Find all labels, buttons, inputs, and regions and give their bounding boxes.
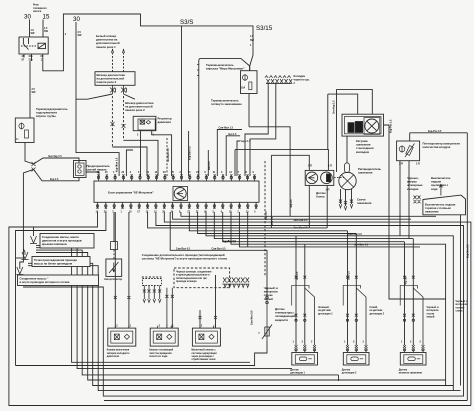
big ground loop rectangle right part [16, 341, 268, 366]
svg-text:левый: левый [427, 316, 435, 319]
bus a2 [173, 212, 411, 219]
bus b4 Чер-Роз 0.5 [214, 212, 413, 239]
knock sensor B3 extras [403, 314, 406, 317]
svg-text:провода штекера: провода штекера [176, 280, 197, 283]
label diagnostic socket white [96, 34, 120, 49]
air temp sensor box [397, 141, 420, 161]
svg-text:каскадом: каскадом [356, 150, 369, 154]
wire gauge ticks x76 and x30 [32, 31, 83, 94]
label air potentiometer [423, 142, 461, 150]
glow plug comb connector [265, 76, 292, 84]
connector junction K right [121, 85, 127, 94]
wire diag right down [124, 94, 135, 99]
label ground 2 box [32, 257, 90, 267]
wire hall left pin down [308, 185, 310, 228]
coolant connector circles [266, 296, 269, 299]
shield pair wires [296, 236, 305, 345]
label distributor [358, 167, 381, 175]
svg-text:Кор-Роз 0.5: Кор-Роз 0.5 [428, 130, 442, 133]
svg-text:панели реле 2: панели реле 2 [97, 80, 117, 84]
svg-text:30: 30 [73, 16, 80, 23]
svg-text:Сив-Жел 0.5: Сив-Жел 0.5 [251, 310, 254, 325]
ECU bottom pins [96, 202, 258, 213]
ECU K symbol circle [173, 187, 188, 201]
wire above ECU dashed Зел-Бел [166, 137, 168, 176]
wire diag plug drops dashed [113, 49, 124, 72]
pressure regulator valve symbol [140, 120, 151, 124]
shield pair wires [348, 231, 357, 345]
hall sensor box B5 [305, 170, 334, 185]
wire right edge Kor-Roz down [466, 133, 468, 401]
comb connector right of dashed block [222, 283, 249, 285]
distributor circle [339, 172, 356, 189]
svg-text:Зел-Кор 1.5: Зел-Кор 1.5 [333, 100, 336, 114]
wire 30 to relay [29, 20, 31, 38]
valve fuse element [249, 82, 252, 90]
svg-text:впрыска "Мерс-Мультимат": впрыска "Мерс-Мультимат" [206, 66, 245, 70]
wire diag left to 30 bus [76, 94, 113, 99]
wire to ECU pin from diag left [112, 147, 147, 176]
damper connector rect [111, 242, 118, 250]
svg-text:холостого хода: холостого хода [149, 355, 168, 358]
connector junction K left [110, 85, 116, 94]
label brake switch [425, 203, 456, 214]
wire coil right to Kor-Roz vertical [384, 125, 390, 160]
label in diagnostic box 2 [97, 73, 126, 84]
svg-text:Кор-Бел 0.5: Кор-Бел 0.5 [188, 146, 191, 160]
bus b3 Сив-Зел 0.5 [206, 212, 453, 391]
ground wire from ECU pin 28 joining big loop [16, 212, 106, 366]
svg-text:отработавших газов: отработавших газов [191, 358, 216, 361]
label damper [104, 277, 122, 281]
svg-text:S3/S: S3/S [180, 19, 193, 26]
wire sensor pins down [400, 161, 409, 239]
knock sensor 3 group [399, 239, 439, 375]
label glow fuse [87, 164, 111, 172]
hall circle with arrow [306, 172, 318, 184]
damper box [106, 259, 122, 276]
valve box 2 [149, 325, 178, 358]
svg-text:Амортизатор: Амортизатор [104, 277, 122, 281]
wire diag pins dashed lower [112, 96, 123, 147]
regulator pins [141, 131, 152, 133]
svg-text:системы "КЕ-Мотроник") в жгуте: системы "КЕ-Мотроник") в жгуте проводов … [142, 257, 228, 261]
plug arrows [339, 204, 353, 210]
coil winding bar 1 [348, 123, 354, 133]
ignition coil top feed inner [328, 94, 358, 150]
svg-text:в жгуте проводов моторного отс: в жгуте проводов моторного отсека [20, 280, 70, 284]
coolant temp sensor symbol [262, 322, 272, 341]
rotated labels knock columns [296, 271, 408, 285]
thermal fuse element [25, 130, 29, 138]
wire to ECU pin from diag right [124, 140, 159, 176]
relay K1 fuel pump label [33, 4, 47, 14]
brake switch trapezoid box [423, 195, 466, 215]
plug connector x-marks [339, 200, 353, 205]
svg-text:1-П: 1-П [416, 163, 420, 166]
wire label vertical left [333, 100, 336, 114]
thermal fuse theta symbol [19, 123, 24, 130]
svg-text:Зел 1.5: Зел 1.5 [228, 133, 237, 136]
comb marks brake [414, 196, 421, 204]
wire fuse to junction [25, 143, 34, 165]
rotated label on loop riser [251, 310, 254, 325]
label ignition coil [356, 139, 374, 154]
label comb connector [294, 74, 310, 85]
damper dashed segment [113, 250, 115, 259]
ground G1 tap [33, 227, 35, 236]
knock sensor 2 group [342, 231, 385, 375]
bus a1 [181, 212, 436, 216]
svg-text:Сив-Бел 0.5: Сив-Бел 0.5 [212, 248, 227, 251]
bus b1 [189, 212, 347, 231]
svg-text:нажатием: нажатием [425, 210, 439, 214]
wire coil bottom to distributor [346, 136, 348, 163]
bus b2 [198, 212, 357, 234]
svg-text:t°: t° [259, 332, 261, 335]
svg-text:жидкости: жидкости [274, 318, 288, 322]
ECU bottom pin row [97, 202, 99, 208]
wire glow fuse to ECU pin [86, 172, 99, 176]
label pressure regulator [158, 116, 172, 124]
svg-text:Сив-Жел 1.5: Сив-Жел 1.5 [219, 127, 234, 130]
coolant sensor feed wire [170, 212, 267, 296]
wire Сив-Жел 1.5 [217, 130, 242, 177]
label hall sensor [316, 191, 326, 199]
x marks valve3 [199, 316, 218, 319]
ground bundle wires [36, 245, 250, 362]
wire ECU to valve1 left [114, 212, 116, 328]
wire valve2 pins [167, 324, 172, 328]
valve box 1 [107, 325, 136, 358]
svg-text:30: 30 [24, 14, 31, 21]
wire brake switch down [460, 215, 462, 386]
bus a4 Зел-Жел 0.5 [156, 212, 464, 396]
relay K1 box [19, 37, 48, 54]
svg-text:Роз 0.5: Роз 0.5 [271, 216, 274, 225]
ground symbol 3 [16, 267, 23, 275]
svg-text:2-П: 2-П [308, 165, 312, 168]
relay K1 dashed link [21, 45, 37, 47]
svg-text:Сив-Зел 0.5: Сив-Зел 0.5 [348, 233, 362, 236]
label thermo valve [206, 63, 245, 70]
svg-text:Кор 1.5: Кор 1.5 [50, 178, 59, 181]
svg-text:потянуто закачивание: потянуто закачивание [211, 102, 242, 106]
x marks valve1 [114, 296, 131, 299]
svg-text:впускн. трубы: впускн. трубы [36, 114, 56, 118]
svg-text:Зел-Бел 0.5: Зел-Бел 0.5 [167, 148, 170, 162]
svg-text:31u: 31u [29, 59, 34, 62]
label clutch switch [431, 176, 451, 191]
wire to valve1 right [128, 212, 130, 328]
bottom bus lines [23, 245, 467, 400]
wire label Kor-Roz 1.5 vertical [390, 119, 393, 133]
svg-text:колодки: колодки [407, 187, 419, 191]
ground symbol 1 [30, 236, 37, 244]
valve Y3 EGR [192, 328, 220, 346]
bus a3 Зел-Сив 0.5 [164, 212, 471, 406]
thermo time valve box [241, 71, 258, 94]
svg-text:Зел-Сив 0.5: Зел-Сив 0.5 [294, 219, 308, 222]
wire Kor-Roz 1.5 down right [389, 160, 446, 299]
svg-text:1-П: 1-П [328, 165, 332, 168]
left connector arrows [143, 299, 161, 303]
svg-text:Кор-Жел 1.5: Кор-Жел 1.5 [115, 157, 118, 172]
svg-text:зажигания: зажигания [358, 171, 373, 175]
label ground 1 box [40, 234, 94, 249]
wire Зел 1.5 [226, 136, 240, 176]
wire regulator right pin to ECU [152, 133, 172, 176]
sensor resistor diagonal [405, 144, 415, 158]
left connector x marks [143, 290, 161, 293]
connector marks on lower pins [111, 122, 126, 128]
label thermal fuse [36, 107, 68, 118]
ECU top pin row [98, 176, 100, 181]
damper symbol [109, 262, 119, 273]
svg-text:двигателя: двигателя [107, 355, 120, 358]
wire 15 to relay [42, 20, 44, 38]
wire above ECU x126 [126, 150, 133, 176]
thermal fuse F1 box [15, 118, 34, 143]
arrowheads on diag wires [111, 50, 124, 54]
dashed connector block [174, 268, 230, 288]
svg-text:слева: слева [456, 310, 464, 313]
hall circle with bar [321, 172, 333, 184]
wire relay 31b down to thermal fuse [29, 61, 31, 118]
rotated labels corridor [265, 199, 293, 225]
wire corridor H y147.6 to hall [235, 150, 328, 176]
comb arrows below [224, 284, 249, 287]
svg-text:момента зажигания: момента зажигания [399, 372, 423, 375]
wire label Kor-Zel vertical [467, 244, 470, 258]
wire comb pin1 down to ECU area [245, 83, 268, 176]
knock sensor 1 group [290, 236, 333, 375]
wire above ECU x208.3 [207, 150, 209, 176]
svg-text:Черн 1.5: Черн 1.5 [241, 140, 252, 143]
sensor pin labels [399, 163, 420, 166]
thermo time valve wire from ECU pin up [199, 58, 250, 176]
lambda damper dashed feed [113, 212, 115, 242]
x marks on valve feeds [165, 295, 173, 298]
glow fuse box [74, 161, 87, 178]
svg-text:детонации 2: детонации 2 [342, 372, 357, 375]
knock sensor B2 extras [346, 314, 349, 317]
inline connector pill [345, 163, 350, 173]
svg-text:Чер 0.5: Чер 0.5 [290, 199, 293, 208]
wire junction down-left [20, 169, 34, 268]
label extra connection note [142, 253, 228, 261]
ECU top pins [97, 171, 256, 181]
svg-text:Сив-Бел 0.5: Сив-Бел 0.5 [176, 248, 191, 251]
svg-text:15: 15 [43, 14, 50, 21]
wire relay 87 loop up to S3 feed [43, 14, 253, 71]
bus b6 Зел-Жел 0.5 [231, 212, 446, 386]
svg-text:детонации 1: детонации 1 [290, 372, 305, 375]
wire thermo valve down [248, 94, 250, 127]
coolant sensor top wire [266, 296, 268, 322]
wire S3/S drop to ECU [181, 26, 183, 176]
pressure regulator box [133, 116, 156, 130]
ECU box U1 [94, 181, 259, 202]
svg-text:Кор-Зел 0.5: Кор-Зел 0.5 [467, 244, 470, 258]
label spark plugs [357, 198, 372, 206]
ignition coil box T1 [342, 114, 384, 136]
svg-text:Бел 0.5: Бел 0.5 [208, 161, 211, 170]
air flow potentiometer wire top [410, 133, 468, 141]
relay K1 contact pins [23, 38, 28, 50]
ground symbol 2 [22, 252, 29, 260]
svg-text:хода: хода [431, 187, 438, 191]
label coolant sensor [274, 307, 295, 322]
brake switch pin arrow [440, 184, 443, 196]
bus b7 [239, 212, 420, 247]
rotated label left of ECU drop [115, 157, 118, 172]
shield pair wires [405, 239, 414, 345]
glow fuse elements [78, 165, 81, 168]
theta in sensor [399, 145, 405, 152]
bus b8 stub [247, 212, 249, 247]
wire gauge label [31, 29, 36, 35]
svg-text:панели реле 2: панели реле 2 [125, 108, 145, 112]
wire above ECU x188.6 [188, 131, 190, 176]
left connector row dashed [142, 276, 162, 278]
svg-text:количества воздуха: количества воздуха [423, 145, 451, 149]
label black connectors [407, 176, 423, 191]
wire junction to glow fuse top [34, 158, 80, 164]
bus a5 [148, 212, 328, 228]
label thermo bottom [211, 99, 242, 107]
valve Y1 cold start [108, 328, 136, 346]
svg-text:зажигания: зажигания [357, 201, 372, 205]
wire valve3 pins [200, 275, 216, 328]
wire H1 to hall right [249, 127, 290, 181]
svg-text:детонации 2: детонации 2 [370, 312, 385, 315]
relay K1 bottom pins [24, 54, 43, 61]
label in dashed block [176, 271, 212, 284]
svg-text:детонации 1: детонации 1 [318, 312, 333, 315]
label black engine bay [264, 286, 279, 301]
wire corridor H y155 to hall left [271, 155, 309, 228]
wire regulator left pin to ECU [140, 133, 142, 176]
coil winding bar 2 [355, 122, 362, 133]
valve Y2 idle cutoff [150, 328, 178, 346]
svg-text:массы на блоке цилиндров: массы на блоке цилиндров [34, 261, 73, 265]
ground wire from ECU pin 19 via left edge to bottom bus [9, 212, 471, 406]
left connector pins [144, 286, 159, 300]
relay K1 coil [38, 43, 46, 48]
hall dashed stub right [334, 177, 344, 179]
wire gauge label [44, 27, 49, 33]
ground G3 tap [16, 257, 24, 259]
wire hall right pin down [326, 185, 328, 228]
label right edge black connector [456, 300, 469, 313]
svg-text:крышка клапанов: крышка клапанов [42, 242, 67, 246]
tick labels on thermo wire [197, 65, 199, 76]
ignition coil top feed outer [337, 89, 373, 172]
distributor pins to plugs [341, 189, 352, 206]
label diag socket 2 [125, 101, 154, 112]
svg-text:черного цв.: черного цв. [294, 78, 310, 82]
svg-text:Бел 0.5: Бел 0.5 [265, 211, 268, 220]
wire x290 down [289, 181, 291, 217]
svg-text:Холла: Холла [316, 194, 325, 198]
diagnostic box 2 [95, 72, 135, 86]
svg-text:Зел-Чер 1.5: Зел-Чер 1.5 [48, 155, 62, 158]
svg-text:панели реле 1: панели реле 1 [96, 45, 116, 49]
wire Черн 1.5 [237, 141, 240, 176]
wire dashed shield to connectors [264, 161, 266, 277]
theta symbol [242, 74, 247, 81]
label ground 3 box [18, 275, 99, 286]
knock sensor B1 extras [295, 314, 298, 317]
svg-text:Блок управления "КЕ-Мотроник: Блок управления "КЕ-Мотроник" [108, 191, 154, 195]
coil output stage circle [364, 118, 380, 135]
svg-text:Кор-Роз 1.5: Кор-Роз 1.5 [390, 119, 393, 133]
svg-text:насоса: насоса [33, 10, 42, 13]
svg-text:15A: 15A [241, 87, 246, 90]
valve box 3 [191, 325, 220, 362]
wire junction to glow fuse bottom [34, 169, 80, 180]
valve feed wires from dashed block [167, 288, 172, 324]
svg-text:S3/15: S3/15 [256, 25, 273, 32]
wire comb pin2 down to ECU area [250, 83, 276, 176]
wire tick labels on S3/15 drop [250, 35, 255, 47]
wire 30 bus down and over to ECU [76, 22, 119, 176]
bus b5 [223, 212, 405, 242]
svg-text:Чер-Роз 0.5: Чер-Роз 0.5 [222, 240, 236, 243]
svg-text:давления: давления [158, 120, 172, 124]
junction X marks [32, 162, 36, 172]
hall pin labels [308, 165, 332, 192]
